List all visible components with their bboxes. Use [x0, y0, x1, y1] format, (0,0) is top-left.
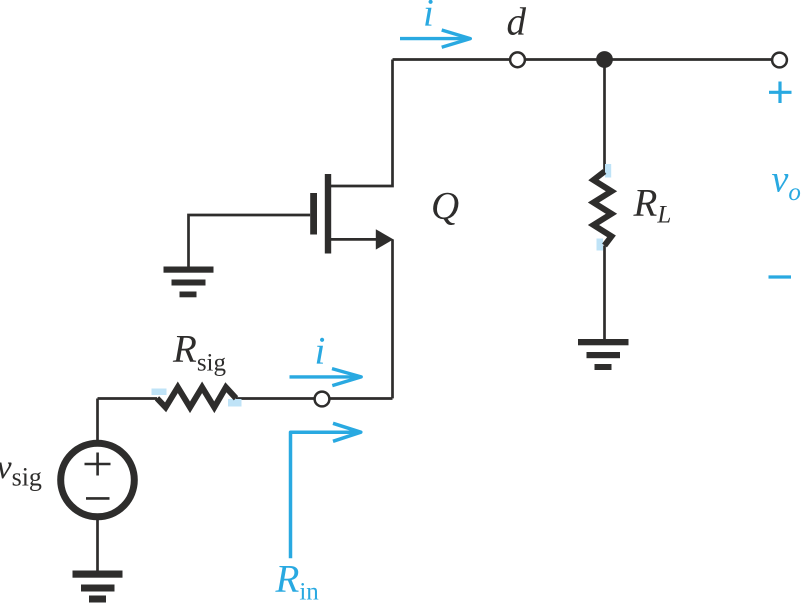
highlight mark RL bottom	[597, 239, 604, 251]
ground (vsig)	[73, 571, 123, 603]
transistor Q1 source arrowhead	[376, 229, 394, 249]
output terminal circle	[772, 53, 787, 68]
svg-text:Rin: Rin	[275, 558, 320, 603]
wire input horizontal	[98, 397, 393, 400]
source vsig plus	[85, 453, 111, 476]
svg-text:vsig: vsig	[0, 449, 42, 492]
wire source lead	[331, 238, 377, 241]
highlight mark Rsig left	[152, 389, 167, 396]
svg-text:Q: Q	[431, 185, 459, 228]
wire vsig to ground	[96, 520, 99, 572]
svg-text:d: d	[507, 1, 527, 44]
current arrow i (input)	[290, 369, 362, 386]
ground (gate)	[164, 267, 214, 298]
wire vsig stub	[96, 399, 99, 442]
transistor Q1 gate bar	[310, 193, 317, 235]
svg-text:Rsig: Rsig	[172, 328, 227, 377]
wire RL to ground	[603, 246, 606, 341]
highlight mark Rsig right	[228, 399, 242, 407]
transistor Q1 channel bar	[325, 174, 331, 254]
current arrow i (top)	[400, 30, 470, 47]
minus output	[769, 275, 792, 278]
svg-text:RL: RL	[633, 182, 672, 229]
svg-text:i: i	[423, 0, 434, 35]
junction dot	[596, 51, 613, 68]
wire drain branch	[331, 60, 393, 187]
wire source vertical	[391, 239, 394, 398]
node d circle	[510, 52, 525, 67]
svg-text:i: i	[315, 330, 326, 373]
ground (RL)	[578, 339, 629, 370]
input node circle	[315, 392, 330, 407]
source vsig circle	[61, 443, 135, 517]
wire top rail	[393, 58, 780, 61]
wire RL top	[603, 60, 606, 173]
Rin arrow	[291, 423, 361, 558]
wire gate to ground	[189, 215, 311, 267]
svg-text:vo: vo	[772, 158, 801, 206]
highlight mark RL top	[605, 164, 611, 178]
source vsig minus	[86, 497, 110, 500]
plus output	[769, 82, 792, 104]
resistor RL	[594, 172, 612, 246]
resistor Rsig	[157, 387, 236, 407]
